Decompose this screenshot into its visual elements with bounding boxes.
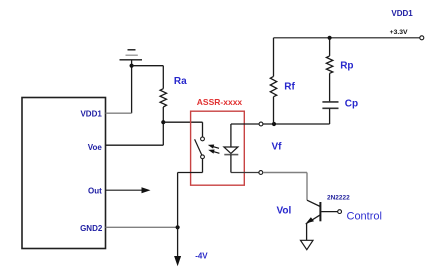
svg-text:Cp: Cp bbox=[345, 99, 358, 110]
svg-text:-4V: -4V bbox=[195, 251, 208, 260]
svg-text:Ra: Ra bbox=[174, 76, 187, 87]
svg-text:Rf: Rf bbox=[284, 81, 295, 92]
svg-text:ASSR-xxxx: ASSR-xxxx bbox=[197, 97, 243, 107]
svg-text:Control: Control bbox=[347, 211, 382, 223]
svg-text:GND2: GND2 bbox=[80, 224, 103, 233]
svg-text:Rp: Rp bbox=[340, 61, 353, 72]
svg-text:Vf: Vf bbox=[272, 142, 283, 153]
svg-text:2N2222: 2N2222 bbox=[327, 195, 350, 202]
svg-text:Out: Out bbox=[88, 186, 102, 195]
svg-text:Voe: Voe bbox=[88, 143, 103, 152]
svg-text:Vol: Vol bbox=[277, 205, 292, 216]
svg-text:VDD1: VDD1 bbox=[391, 9, 413, 18]
svg-text:+3.3V: +3.3V bbox=[390, 29, 408, 36]
svg-text:VDD1: VDD1 bbox=[80, 110, 102, 119]
